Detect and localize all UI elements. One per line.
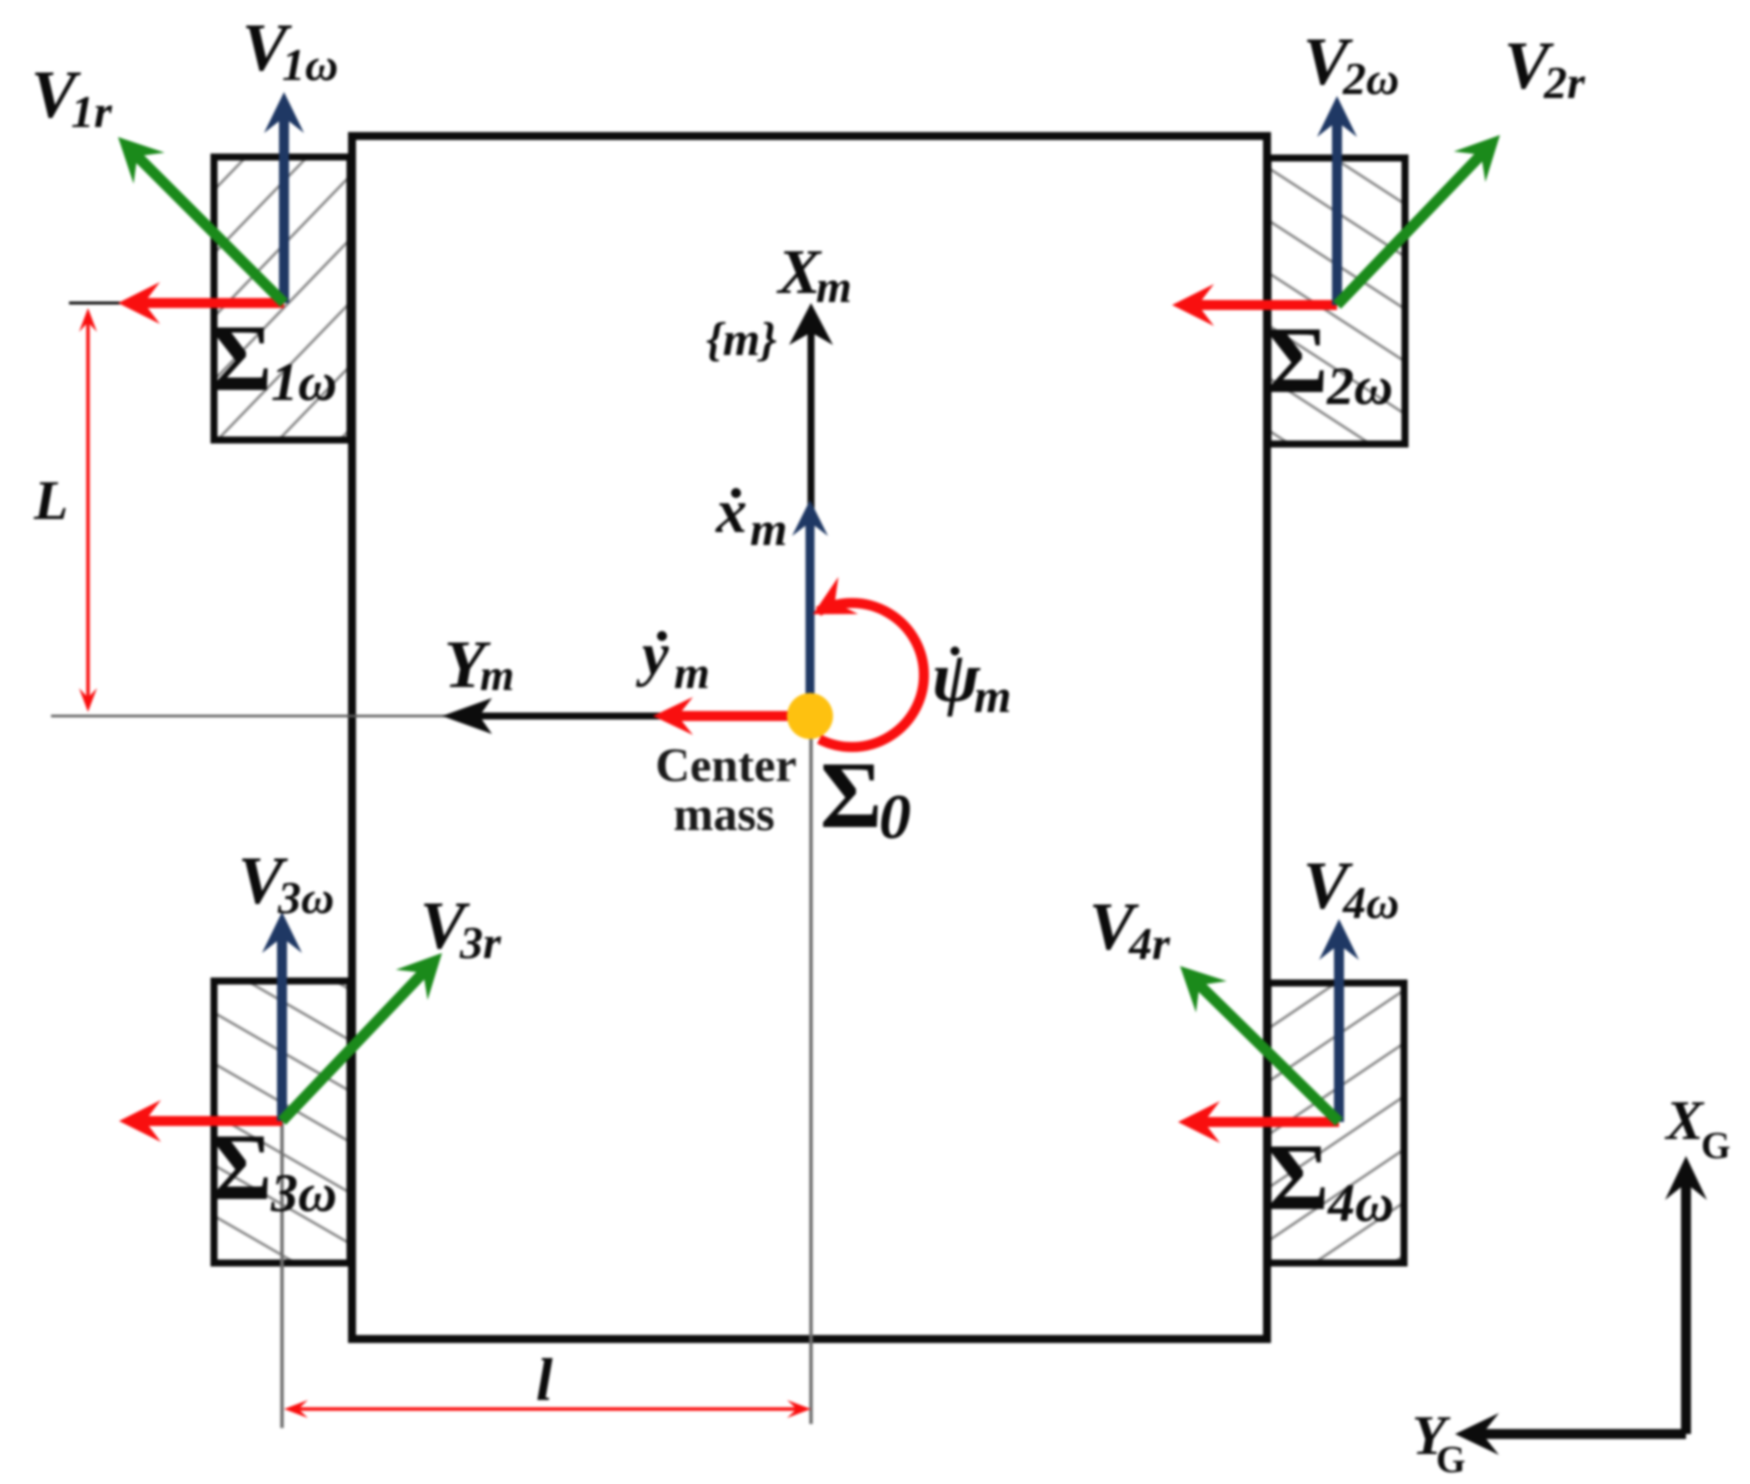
svg-text:L: L [33, 470, 68, 532]
svg-text:Center: Center [655, 739, 796, 792]
svg-text:Σ: Σ [1267, 1124, 1329, 1230]
svg-text:0: 0 [879, 781, 911, 852]
svg-text:3ω: 3ω [277, 872, 334, 923]
svg-text:4r: 4r [1128, 918, 1171, 969]
svg-text:2ω: 2ω [1326, 356, 1393, 416]
svg-text:Σ: Σ [820, 742, 882, 848]
svg-text:1ω: 1ω [271, 352, 337, 412]
svg-text:3ω: 3ω [270, 1163, 337, 1223]
svg-text:X: X [1664, 1090, 1705, 1152]
svg-text:2ω: 2ω [1342, 53, 1399, 104]
svg-text:1r: 1r [71, 86, 113, 137]
svg-text:l: l [536, 1347, 553, 1413]
svg-text:3r: 3r [459, 917, 502, 968]
svg-text:m: m [750, 503, 787, 556]
svg-text:{m}: {m} [706, 313, 777, 366]
svg-text:1ω: 1ω [282, 39, 338, 90]
svg-text:m: m [674, 647, 710, 698]
svg-text:m: m [974, 670, 1011, 723]
svg-text:x: x [715, 478, 747, 546]
svg-text:G: G [1701, 1125, 1731, 1167]
svg-text:Σ: Σ [210, 305, 272, 411]
svg-text:m: m [480, 651, 514, 700]
svg-text:G: G [1436, 1439, 1466, 1481]
svg-text:m: m [816, 261, 852, 312]
svg-text:mass: mass [673, 788, 774, 841]
svg-text:2r: 2r [1543, 57, 1586, 108]
svg-text:4ω: 4ω [1327, 1173, 1394, 1233]
svg-text:Σ: Σ [210, 1114, 272, 1220]
svg-text:Σ: Σ [1266, 307, 1328, 413]
svg-text:4ω: 4ω [1342, 877, 1399, 928]
